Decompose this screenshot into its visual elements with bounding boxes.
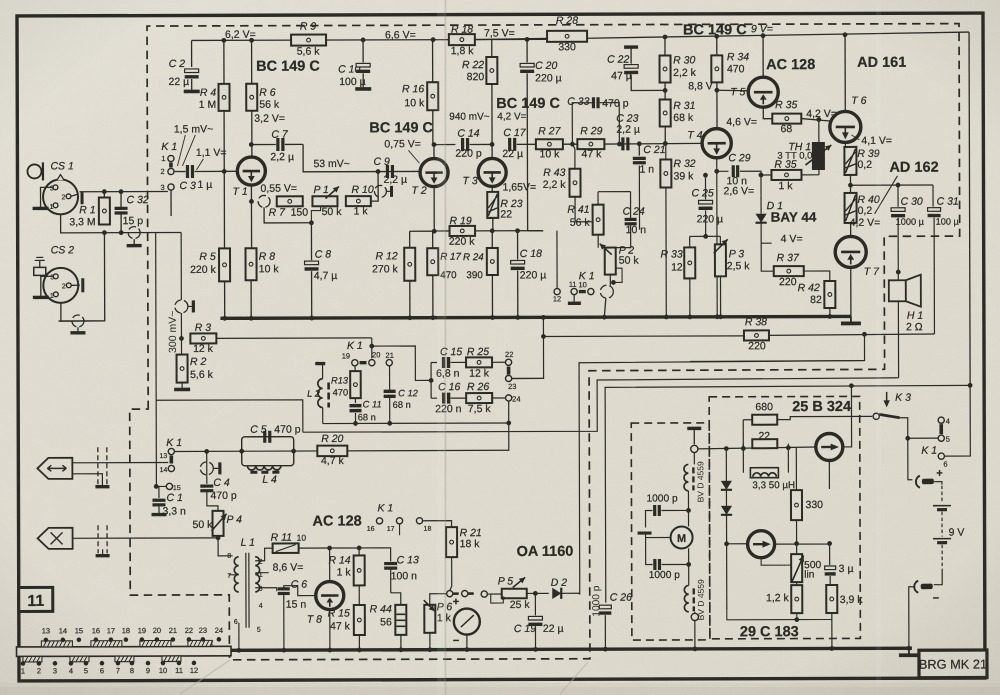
battery cell 2 <box>933 539 951 543</box>
contact K1-11 <box>568 280 581 304</box>
capacitor C9 <box>373 156 407 186</box>
wire R10 to C9 <box>371 169 381 201</box>
wire CS1 pin2 stub <box>71 192 82 204</box>
diode D1 BAY 44 <box>755 195 817 243</box>
resistor R16 <box>402 82 438 110</box>
resistor R11 <box>271 532 307 553</box>
junction dot C7 tap <box>249 142 254 147</box>
wire 9V right drop <box>969 32 970 385</box>
capacitor C29 <box>717 152 761 195</box>
junction dots CS1 net <box>102 189 124 235</box>
wire head1 bottom lead <box>72 474 109 487</box>
resistor 330 <box>791 448 823 520</box>
resistor R27 <box>536 125 563 160</box>
label 3,2 V= <box>254 113 285 125</box>
resistor R43 <box>543 144 581 197</box>
wire R15 bottom <box>357 635 362 652</box>
resistor R25 <box>466 346 492 380</box>
capacitor C21 <box>633 144 666 230</box>
wire P5 to D2 <box>527 591 549 596</box>
wire P2 tap <box>611 268 622 285</box>
label K 1 (T8 contacts) <box>377 502 393 514</box>
wire R38 line <box>543 335 743 338</box>
wire T2-T3 coupling <box>434 144 455 146</box>
wire T5 base <box>717 89 748 92</box>
potentiometer P1 <box>312 184 342 218</box>
label 940 mV~ <box>449 112 489 123</box>
capacitor C1 <box>151 486 186 517</box>
capacitor C25 <box>691 173 723 237</box>
capacitor C15 <box>431 346 466 380</box>
contact K1-6 <box>938 453 947 469</box>
junction dots on rail <box>221 32 847 42</box>
wire erase ground stub <box>96 549 110 556</box>
label K 1 (head contacts) <box>166 437 182 449</box>
wire R17 <box>430 231 435 320</box>
capacitor C2 <box>168 40 199 91</box>
wire R3 right <box>216 337 371 339</box>
battery dashes mid <box>941 512 943 537</box>
antenna symbol at CS2 <box>34 257 46 275</box>
label BC 149 C (T2) <box>369 120 433 136</box>
capacitor C23 <box>616 113 640 151</box>
wire head1 top lead <box>72 462 168 464</box>
wire R44 bottom <box>398 635 403 652</box>
contact K1-19 <box>342 351 358 365</box>
wire C20 ground link <box>528 230 543 232</box>
label AC 128 (T8) <box>313 513 362 529</box>
resistor R19 <box>449 215 476 248</box>
resistor R18 <box>449 24 475 58</box>
wire feedback down <box>690 334 865 361</box>
wire T5 collector <box>762 36 764 77</box>
wire line B left end <box>156 400 303 433</box>
coil with core bottom (BV D 4559) <box>684 579 706 620</box>
erase head symbol <box>38 528 73 549</box>
contact K1-12 <box>553 231 562 304</box>
wire T8 base <box>284 586 316 596</box>
wire R12 <box>407 231 434 320</box>
wire R11 right <box>299 546 332 551</box>
wire osc mid row <box>727 541 832 546</box>
meter terminal circles <box>430 590 474 596</box>
label 25 B 324 <box>792 399 851 415</box>
coil L4 <box>247 466 281 486</box>
wire L1 pin6 down <box>236 623 241 653</box>
contact K1-18 <box>416 518 431 533</box>
transistor T4 <box>702 129 731 158</box>
wire R4 <box>223 40 226 248</box>
wire mid branch <box>180 232 182 299</box>
battery plug symbol <box>916 468 943 488</box>
label 1000 p (C26) <box>591 585 602 617</box>
wire motor bottom out <box>692 620 697 651</box>
label BC 149 C (T3) <box>496 96 560 112</box>
contact K1-17 <box>387 518 403 533</box>
resistor 22 (osc) <box>743 430 788 448</box>
wire R21 bottom <box>450 557 452 590</box>
shield dashes head 2 <box>98 525 107 553</box>
contact K1-10 <box>578 280 593 294</box>
switch K3 arrow <box>883 392 889 408</box>
resistor R12 <box>372 248 415 281</box>
wire plug to cell <box>934 482 942 485</box>
label CS 1 <box>50 160 73 172</box>
wire CS1 pin3 to ground <box>41 187 54 207</box>
motor terminal bottom <box>691 612 698 621</box>
wire R19 left <box>434 230 449 232</box>
wire motor bottom link <box>686 548 691 566</box>
wire ground link from bus <box>511 315 546 379</box>
shield circle mid <box>175 300 194 313</box>
capacitor C18 <box>511 231 547 320</box>
resistor R13 <box>331 366 361 398</box>
label K 1 (mid contacts) <box>347 340 363 352</box>
capacitor C5 <box>250 424 300 443</box>
wire 500 bottom <box>796 582 798 585</box>
wire T3 emitter <box>491 186 493 191</box>
wire motor connections <box>645 508 691 565</box>
wire R8 bottom <box>249 280 254 320</box>
label OA 1160 <box>517 544 574 560</box>
contact K1-2 <box>160 167 174 176</box>
wire R30 <box>663 37 668 100</box>
junction dot T1 base <box>222 169 227 174</box>
wire R6 top <box>251 40 253 83</box>
ground symbol at bottom bus end <box>899 646 919 655</box>
ground bus (bottom) <box>231 648 911 650</box>
BRG MK 21 title box <box>919 650 987 678</box>
resistor R35b <box>771 159 801 193</box>
wire P3 <box>706 236 723 319</box>
wire C6 ground <box>281 594 286 653</box>
resistor R2 <box>177 354 214 382</box>
resistor R6 <box>246 84 280 111</box>
resistor R4 <box>199 84 230 111</box>
wire K1-6 to rail <box>944 385 970 456</box>
resistor R29 <box>577 125 604 160</box>
wire 25B324 emitter <box>828 460 830 488</box>
microphone symbol <box>27 162 43 180</box>
wire shield to bus <box>602 298 607 319</box>
resistor R9 <box>291 21 326 58</box>
label 8,6 V= <box>255 562 303 574</box>
ground symbol at top bus end <box>841 316 861 323</box>
wire contact 17 stub <box>399 524 401 535</box>
wire R27-R29 <box>563 142 578 147</box>
wire CS2 output <box>61 303 105 321</box>
wire R1 top <box>80 192 168 198</box>
wire C15/C16 left rail <box>429 363 434 399</box>
transistor T2 <box>420 159 448 187</box>
ground motor left <box>638 533 652 538</box>
wire K1 mid feed <box>369 338 431 381</box>
capacitor C20 <box>520 39 562 230</box>
wire 29C183 emitter tap <box>761 558 791 566</box>
transistor T7 <box>835 236 866 267</box>
transistor T8 <box>316 581 344 609</box>
wire L1 pin2 to R11 <box>255 548 273 561</box>
wire R6 to T1 collector <box>251 111 253 157</box>
switch bank rail <box>16 640 231 662</box>
capacitor C33 <box>567 96 629 145</box>
label 2,6 V= <box>724 185 755 197</box>
diode osc 2 <box>721 506 732 515</box>
label 7,5 V= <box>484 27 515 39</box>
label 2 Ω <box>906 321 923 333</box>
record level meter <box>453 596 480 647</box>
capacitor C13 <box>357 545 419 593</box>
wire R42 bottom <box>827 308 832 319</box>
wire battery minus <box>934 569 943 585</box>
contact K1-4 <box>938 417 950 426</box>
wire C15 feed <box>400 345 416 347</box>
wire R43 down <box>575 197 592 222</box>
battery dashes bottom <box>941 545 943 569</box>
capacitor C26 <box>599 592 632 652</box>
contact K1-16 <box>367 518 383 533</box>
resistor R10 <box>346 184 374 218</box>
potentiometer P4 <box>192 511 242 536</box>
capacitor C14 <box>455 128 482 160</box>
wire osc left rail bottom <box>727 610 797 620</box>
wire R32 <box>663 143 668 319</box>
junction dot T2 collector <box>432 142 437 147</box>
contact K1-21 <box>386 351 394 366</box>
shield dashes head 1 <box>98 447 107 488</box>
wire CS2 pin2 stub <box>71 278 83 292</box>
wire R35a to T6 <box>801 117 830 122</box>
wire C7 to T2 line <box>303 144 419 172</box>
label 53 mV~ <box>313 158 350 170</box>
wire meter bottom <box>464 635 469 652</box>
resistor R3 <box>190 322 216 355</box>
wire T2 emitter <box>432 187 437 234</box>
contact bar K1 13-14 <box>170 456 174 464</box>
capacitor C7 <box>251 129 303 164</box>
wire R25 to contact 22 <box>492 361 505 363</box>
wire R44 top <box>391 593 401 605</box>
label 9 V (battery) <box>949 527 965 539</box>
DIN socket CS2 <box>43 268 78 303</box>
wire R39-R40 <box>848 175 853 193</box>
label T 5 <box>730 86 745 98</box>
transistor T3 <box>478 158 506 186</box>
ground at CS1 <box>33 207 49 210</box>
capacitor C8 <box>304 223 337 321</box>
resistor 1,2k <box>766 585 802 613</box>
label AD 161 <box>857 55 906 71</box>
page number box 11 <box>19 587 53 611</box>
capacitor C4 <box>200 451 237 511</box>
wire K3 to K1-5 <box>905 436 938 441</box>
paper crease bottom left <box>180 660 588 694</box>
resistor R39 (hatched) <box>844 147 879 175</box>
label BC 149 C (T4) <box>683 22 747 38</box>
wire shield to C8 <box>264 207 311 223</box>
ground bus (top section) <box>220 316 850 318</box>
wire R34 <box>714 36 719 128</box>
motor terminal top <box>691 445 698 464</box>
dashed motor module box <box>631 423 710 640</box>
resistor R15 <box>328 605 365 635</box>
motor M symbol <box>671 526 693 548</box>
wire speaker bottom (return) <box>897 301 899 377</box>
contact bar K1 4-5 <box>939 424 943 434</box>
wire L1 pin3 to C6 <box>255 588 277 592</box>
resistor R37 <box>774 252 804 288</box>
resistor R7 <box>269 196 309 218</box>
capacitor C19 <box>514 593 564 652</box>
transistor 29C183 <box>748 531 775 558</box>
label 8,8 V <box>688 80 713 92</box>
capacitor C24 <box>598 192 646 248</box>
battery cell dashes <box>941 486 943 504</box>
coil 3,3 50uH <box>750 468 795 492</box>
wire speaker top <box>896 270 901 281</box>
transistor T6 <box>830 111 861 142</box>
wire R22 <box>491 40 493 158</box>
wire osc left rail <box>724 449 729 611</box>
wire L2 bottom row <box>323 421 510 426</box>
wire R19 right <box>475 228 543 233</box>
contact bar K1 11-10 <box>579 290 586 293</box>
wire K1-2 to C3 <box>174 170 185 172</box>
thermistor TH1 <box>777 119 831 174</box>
label K 3 <box>895 392 911 404</box>
resistor 3,9k <box>826 585 863 613</box>
resistor R1 <box>69 197 110 228</box>
wire R23 bottom <box>492 218 494 231</box>
label H 1 <box>907 310 923 322</box>
contact K1-22 <box>505 350 513 365</box>
label K 1 (rec contacts) <box>579 270 595 282</box>
label 29 C 183 <box>740 624 799 640</box>
wire R26 to contact 24 <box>492 397 505 399</box>
transformer L1 <box>234 537 260 628</box>
coil with core top (BV D 4559) <box>684 461 706 502</box>
resistor R35a <box>772 99 801 135</box>
contact K1-23 <box>505 375 516 391</box>
label 9 V= <box>751 23 773 35</box>
label 1,1 V= <box>196 147 227 170</box>
wire T2 collector <box>433 145 435 159</box>
resistor R31 <box>660 99 696 126</box>
resistor R14 <box>328 554 364 585</box>
label T 4 <box>687 129 702 141</box>
label 6,2 V= <box>225 29 256 41</box>
shield symbol on CS2 wire <box>70 315 85 333</box>
label T 1 <box>233 186 248 198</box>
contact K1-15 <box>154 483 181 492</box>
wire T6 emitter <box>844 142 846 146</box>
label 4 V= <box>781 233 803 245</box>
wire R2 ground <box>174 383 190 390</box>
wire battery plus <box>908 438 913 480</box>
wire tank row <box>175 448 510 454</box>
label T 3 <box>462 175 477 187</box>
contact K1-13 <box>160 448 175 460</box>
wire R33 <box>687 234 708 319</box>
label AC 128 (T5) <box>766 57 815 73</box>
bottom edge shading <box>0 683 1000 695</box>
wire T5 emitter <box>763 107 772 119</box>
capacitor C12 <box>384 366 419 424</box>
capacitor 1000p top <box>645 493 678 527</box>
contact K1-20 <box>369 350 381 365</box>
resistor R8 <box>245 248 279 280</box>
label 4,2 V= (T3) <box>497 111 526 122</box>
ground in motor box <box>687 428 701 444</box>
wire osc top rail <box>698 445 817 451</box>
wire motor top junction <box>661 491 688 511</box>
label T 2 <box>412 185 427 197</box>
resistor R42 <box>798 281 836 308</box>
wire P5 tap <box>491 594 505 603</box>
wire R5 bottom <box>222 281 227 320</box>
label 0,75 V= <box>384 138 421 163</box>
resistor R23 (hatched) <box>487 192 523 221</box>
label K 1 (battery) <box>921 445 937 457</box>
wire R1 bottom down <box>58 233 105 321</box>
switch bank top contacts 13-24 <box>42 626 223 642</box>
contact P5 terminal <box>481 591 502 597</box>
contact bar K1 19-20 <box>360 361 367 364</box>
DIN socket CS1 <box>43 174 78 214</box>
wire L1 pin7 <box>229 574 239 576</box>
contact K1-14 <box>160 465 175 474</box>
capacitor C32 <box>115 194 149 227</box>
switch K3 blade <box>873 413 908 438</box>
diode osc 1 <box>721 481 732 490</box>
resistor R32 <box>660 158 696 188</box>
wire to R3 <box>179 313 184 355</box>
paper crease right <box>876 0 881 695</box>
wire P1 tap to C8 <box>309 206 321 225</box>
wire R16 <box>432 40 434 145</box>
wire CS2 pin3 ground <box>33 276 54 297</box>
transistor 25B324 <box>816 433 843 460</box>
shield circle P2 <box>600 285 613 298</box>
label BC 149 C (T1) <box>256 59 320 75</box>
resistor R34 <box>711 51 749 82</box>
wire R35b wiring <box>759 172 819 177</box>
wire T1 emitter <box>249 185 254 248</box>
wire T8 emitter <box>327 610 332 653</box>
shield circle R7 row <box>258 195 270 207</box>
wire P2 bottom <box>609 275 611 286</box>
wire R24 <box>490 231 495 320</box>
resistor R24 <box>463 248 498 281</box>
wire T4 emitter <box>714 158 719 319</box>
capacitor 1000p bottom <box>649 559 689 586</box>
wire contact 23 link <box>512 377 544 379</box>
wire +9V top rail <box>192 32 970 40</box>
capacitor C10 <box>338 40 371 89</box>
wire T7 emitter <box>850 267 852 316</box>
resistor R5 <box>190 248 230 281</box>
resistor R17 <box>427 248 461 281</box>
label 300 mV~ (vertical) <box>167 311 179 353</box>
wire speaker return line B <box>303 378 899 432</box>
potentiometer P2 <box>600 244 640 275</box>
label AD 162 <box>874 160 938 214</box>
wire D2 right <box>561 592 579 595</box>
contact bar K1 1-2 <box>169 163 173 168</box>
capacitor C6 <box>278 579 308 611</box>
resistor R28 <box>547 15 587 54</box>
wire K1-3 down <box>170 190 172 216</box>
